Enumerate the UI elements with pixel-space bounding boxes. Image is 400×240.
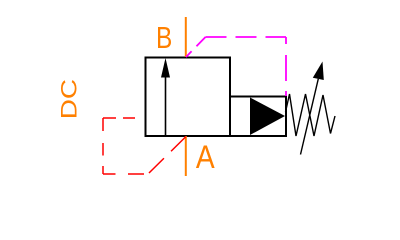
spring adjust arrowhead [313,62,324,81]
spring [286,94,336,136]
flow arrow shaft [165,74,167,136]
drain line red horizontal top [103,117,146,119]
svg-text:B: B [156,21,172,55]
pilot line magenta vertical [285,37,287,96]
pilot line magenta horizontal [206,36,287,38]
drain line red horizontal bottom [103,173,148,175]
drain line red diagonal [148,137,186,175]
spring adjust arrow shaft [301,79,319,155]
svg-text:DC: DC [57,79,82,119]
solenoid triangle [250,98,285,136]
flow arrowhead [161,58,170,78]
port A line [185,136,187,176]
pilot line magenta diagonal [186,37,206,57]
valve body [146,58,231,137]
solenoid box [230,97,286,137]
port B line [185,17,187,57]
svg-text:A: A [196,139,215,175]
drain line red vertical [102,118,104,174]
